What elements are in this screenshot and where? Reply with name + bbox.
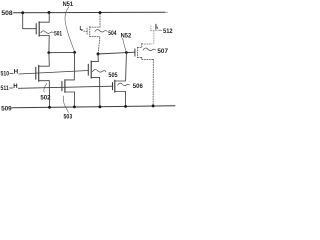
node dot N51 right	[73, 51, 76, 54]
wire: 503 source down to bottom rail	[73, 92, 75, 107]
leader line from 502 label	[44, 83, 47, 92]
wire: 501 source down to node N51	[48, 36, 50, 53]
squiggle leader to label 507	[143, 48, 156, 51]
svg-text:N52: N52	[121, 33, 132, 40]
dash after 511	[9, 87, 13, 89]
svg-text:H: H	[14, 69, 18, 75]
transistor 501	[36, 22, 49, 36]
node dot N52 left	[97, 53, 100, 56]
dashed gate lead of 504	[81, 30, 87, 31]
squiggle leader to label 505	[93, 69, 106, 72]
wire: node N51 horizontal segment	[49, 51, 75, 53]
wire: 510-H gate wire through 502 and 505 gates	[19, 71, 88, 75]
svg-text:509: 509	[1, 105, 12, 112]
squiggle leader to label 506	[118, 83, 130, 85]
wire: N52 down to 506 drain	[115, 53, 127, 81]
node dot N51 left	[47, 51, 50, 54]
transistor 507 (dashed) gate bar	[134, 49, 136, 56]
node dot on rail at 501 gate tap	[21, 11, 24, 14]
transistor 503	[62, 80, 75, 93]
svg-text:H: H	[13, 84, 17, 90]
wire: 501 gate connection from rail	[23, 13, 36, 28]
node dot bottom 503 source	[73, 106, 76, 109]
node dot bottom 506 source	[124, 105, 127, 108]
svg-text:501: 501	[54, 30, 62, 37]
wire: 501 drain up to rail	[48, 13, 50, 23]
svg-text:L: L	[80, 26, 84, 32]
leader line from N51 to node	[65, 7, 75, 52]
transistor 502	[36, 66, 50, 82]
wire: N51 down to 503 drain	[65, 53, 75, 80]
node dot bottom 505 source	[98, 105, 101, 108]
squiggle leader to label 504	[95, 30, 107, 32]
leader line from N52 to node	[123, 38, 127, 52]
node dot N52 right	[125, 51, 128, 54]
transistor 512 (dashed, small)	[151, 24, 159, 43]
svg-text:511: 511	[1, 85, 10, 92]
node dot bottom 502 source	[48, 106, 51, 109]
wire: 502 source down to bottom rail	[48, 81, 50, 108]
squiggle leader to label 501	[41, 31, 54, 34]
wire: 511-H gate wire through 503 and 506 gates	[18, 86, 113, 88]
svg-text:N51: N51	[63, 1, 74, 8]
dashed wire: 504 drain up to rail	[99, 14, 101, 28]
node dot on rail at 501 drain	[48, 11, 51, 14]
leader dash to label 512	[159, 29, 161, 31]
transistor 504 (dashed)	[87, 26, 100, 36]
svg-text:510: 510	[1, 71, 10, 78]
transistor 506	[113, 80, 126, 92]
svg-text:503: 503	[64, 114, 73, 120]
transistor 505	[88, 61, 99, 78]
wire: bottom rail 509	[12, 106, 175, 108]
wire: N51 down to 502 drain	[39, 53, 50, 66]
wire: 505 source down to bottom rail	[99, 78, 101, 107]
svg-text:505: 505	[108, 72, 118, 79]
transistor 507 dashed channel and stubs	[137, 43, 153, 105]
leader line from 503 label	[63, 96, 68, 113]
svg-text:504: 504	[108, 30, 117, 37]
svg-text:502: 502	[40, 94, 50, 101]
wire: N52 down to 505 drain	[91, 54, 98, 62]
svg-text:512: 512	[163, 28, 173, 35]
dash after 510	[10, 73, 14, 75]
svg-text:507: 507	[157, 48, 168, 55]
node dot bottom dashed 507/512 source	[152, 104, 155, 107]
svg-text:508: 508	[1, 10, 13, 17]
wire: top rail 508	[13, 11, 165, 14]
svg-text:506: 506	[133, 83, 143, 90]
dashed wire: 504 source down to node N52	[98, 38, 100, 53]
wire: node N52 horizontal segment	[98, 52, 135, 54]
wire: 506 source down to bottom rail	[125, 92, 127, 107]
node dot on rail at 504 drain (dashed)	[99, 11, 102, 14]
